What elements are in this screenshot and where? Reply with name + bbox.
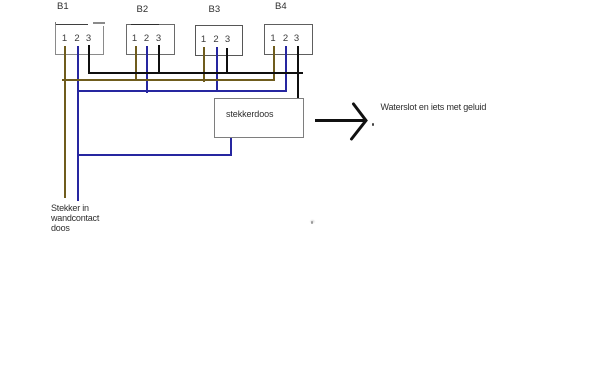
label stekkerdoos: [226, 109, 273, 119]
blue branch horizontal to stekkerdoos: [77, 154, 232, 156]
label Stekker in wandcontact doos: [51, 203, 99, 233]
B2 top edge dark segment: [131, 24, 159, 26]
connector block B1: [55, 24, 104, 55]
brown bus horizontal: [62, 79, 275, 81]
stekkerdoos box: [214, 98, 304, 138]
B1 pin 1: [60, 34, 70, 43]
connector block B4: [264, 24, 313, 55]
B1 top edge raised dash: [93, 22, 105, 23]
label B3: [209, 5, 221, 15]
arrow head: [345, 100, 375, 145]
wire B1 pin1 brown vertical: [64, 46, 66, 199]
label B2: [137, 5, 149, 15]
faint smudge mark: [308, 218, 317, 225]
connector block B3: [195, 25, 243, 56]
wire B3 pin1 brown vertical: [203, 47, 205, 82]
wire B2 pin1 brown vertical: [135, 46, 137, 82]
B2 pin 2: [142, 34, 152, 43]
wire B3 pin3 black vertical: [226, 48, 228, 73]
B2 pin 1: [130, 34, 140, 43]
wire B2 pin3 black vertical: [158, 45, 160, 74]
B2 pin 3: [154, 34, 164, 43]
black bus horizontal: [88, 72, 303, 74]
B1 pin 3: [84, 34, 94, 43]
connector block B2: [126, 24, 175, 55]
wire B1 pin3 black vertical: [88, 45, 90, 74]
label B4: [275, 2, 287, 12]
blue bus horizontal: [77, 90, 287, 92]
B1 pin 2: [72, 34, 82, 43]
B1 corner tick: [55, 22, 56, 25]
blue branch vertical into stekkerdoos: [230, 137, 232, 156]
wire B1 pin2 blue vertical: [77, 46, 79, 202]
B4 pin 3: [292, 34, 302, 43]
wire B4 pin3 black vertical to stekkerdoos: [297, 46, 299, 106]
faint smudge dot: [311, 221, 314, 224]
B3 pin 3: [223, 35, 233, 44]
wire B3 pin2 blue vertical: [216, 47, 218, 92]
B3 pin 2: [211, 35, 221, 44]
B1 top edge gap: [88, 23, 104, 26]
B1 top edge dark segment: [55, 24, 88, 26]
stray dot after arrow: [372, 123, 375, 126]
label B1: [57, 2, 69, 12]
B3 pin 1: [199, 35, 209, 44]
wire B4 pin2 blue vertical: [285, 46, 287, 91]
wire B2 pin2 blue vertical: [146, 46, 148, 93]
B4 pin 1: [268, 34, 278, 43]
wire B4 pin1 brown vertical: [273, 46, 275, 81]
B4 pin 2: [281, 34, 291, 43]
arrow shaft: [315, 119, 365, 122]
label Waterslot en iets met geluid: [381, 102, 487, 112]
